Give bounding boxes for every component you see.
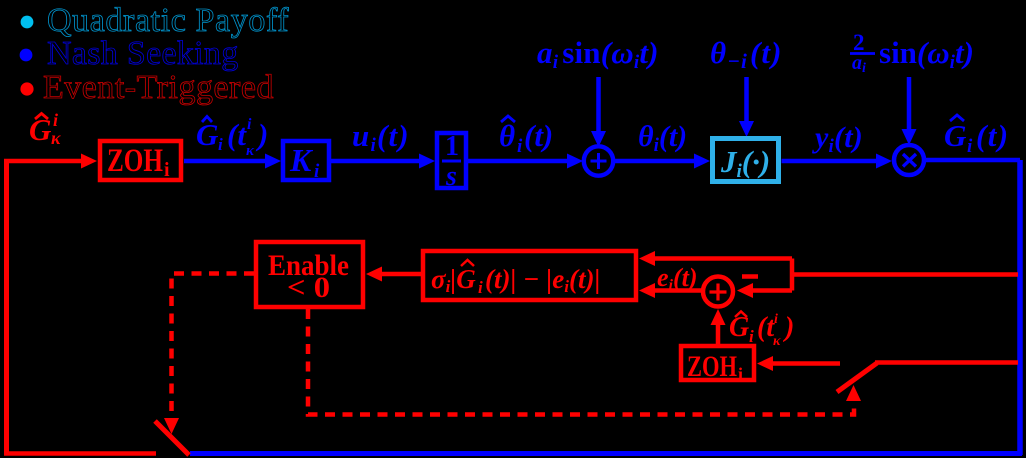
legend bullet Quadratic Payoff	[21, 16, 34, 29]
wire blue dither down into sum with arrowhead	[591, 77, 606, 147]
minus sign label	[742, 274, 758, 279]
svg-text:i: i	[247, 116, 252, 133]
svg-text:Event-Triggered: Event-Triggered	[43, 69, 274, 106]
dashed red Enable bottom control line	[308, 309, 861, 415]
wire red ZOH2 up into red sum with arrowhead	[711, 309, 726, 344]
wire red vertical junction x=792	[790, 259, 795, 291]
wire red from junction into red sum with arrowhead (minus input)	[737, 283, 792, 298]
wire blue multiplier to right edge	[924, 158, 1020, 163]
label (2/a_i)sin(w_i t) demod	[850, 30, 974, 76]
block Enable<0	[256, 242, 363, 307]
legend bullet Event-Triggered	[20, 82, 33, 95]
svg-text:Ji(·): Ji(·)	[720, 144, 770, 182]
svg-text:(t)| − |ei(t)|: (t)| − |ei(t)|	[485, 264, 600, 296]
label Ghat_i(t) output	[944, 115, 1009, 157]
svg-text:ui(t): ui(t)	[352, 118, 410, 156]
svg-text:Quadratic Payoff: Quadratic Payoff	[47, 2, 289, 39]
svg-text:i: i	[517, 136, 523, 157]
block sigma_i|Ghat_i(t)|-|e_i(t)|	[423, 251, 636, 300]
dashed red Enable left control line	[164, 274, 254, 435]
svg-text:i: i	[738, 364, 743, 384]
wire blue K_i to 1/s with arrowhead	[329, 154, 435, 169]
block J_i(.) payoff (cyan)	[713, 139, 779, 183]
block ZOH_i (lower)	[681, 346, 754, 384]
label thetahat_i(t)	[499, 116, 553, 157]
svg-text:(t): (t)	[524, 118, 553, 153]
multiplier junction (blue times circle)	[894, 145, 924, 175]
svg-text:sin(ωit): sin(ωit)	[879, 35, 974, 73]
svg-text:i: i	[53, 110, 58, 130]
wire blue bottom horizontal	[190, 451, 1022, 456]
wire blue J_i to multiplier with arrowhead	[782, 154, 893, 169]
svg-text:(t: (t	[227, 117, 247, 152]
wire blue ZOH1 to K_i with arrowhead	[184, 154, 281, 169]
svg-text:1: 1	[445, 131, 459, 162]
svg-text:ZOH: ZOH	[687, 350, 737, 383]
wire red into ZOH1 with arrowhead	[4, 154, 97, 169]
switch blade left	[155, 421, 189, 455]
svg-text:yi(t): yi(t)	[812, 121, 863, 157]
switch blade right	[837, 363, 877, 392]
wire blue demod down into multiplier with arrowhead	[902, 77, 917, 145]
label Ghat_i(t^i_kappa) top	[196, 116, 268, 159]
svg-text:ZOH: ZOH	[107, 143, 163, 179]
svg-text:i: i	[478, 278, 483, 297]
red sum junction (plus circle)	[703, 277, 733, 307]
svg-text:K: K	[289, 142, 314, 178]
wire red long line to blue right edge	[792, 272, 1018, 277]
sum junction (blue plus circle)	[584, 146, 613, 175]
wire red left vertical feedback	[4, 161, 9, 454]
svg-text:i: i	[164, 159, 170, 181]
svg-text:G: G	[29, 112, 52, 147]
svg-text:(t): (t)	[976, 118, 1009, 153]
svg-text:s: s	[445, 161, 457, 192]
svg-text:i: i	[967, 136, 973, 157]
svg-text:< 0: < 0	[287, 271, 330, 304]
svg-text:σi|G: σi|G	[431, 264, 476, 296]
block ZOH_i (top)	[100, 141, 181, 181]
wire red bottom-left horizontal	[4, 451, 156, 456]
svg-text:θi(t): θi(t)	[638, 120, 687, 156]
svg-text:Nash Seeking: Nash Seeking	[47, 35, 239, 72]
svg-text:κ: κ	[773, 334, 781, 349]
label Ghat^i_kappa	[29, 110, 61, 148]
svg-text:i: i	[749, 327, 754, 346]
svg-text:i: i	[314, 161, 320, 182]
block integrator 1/s	[437, 131, 466, 192]
svg-text:i: i	[774, 312, 778, 327]
block K_i	[283, 141, 329, 182]
svg-text:i: i	[218, 135, 223, 154]
wire red switch to blue right edge	[875, 360, 1018, 365]
wire blue 1/s to sum with arrowhead	[466, 154, 583, 169]
wire red upper entry into sigma-box with arrowhead	[639, 251, 792, 266]
wire blue sum to J_i with arrowhead	[614, 154, 710, 169]
wire blue right edge vertical	[1017, 160, 1023, 455]
legend bullet Nash Seeking	[20, 49, 33, 62]
wire blue theta_-i down into J_i with arrowhead	[739, 77, 754, 137]
svg-text:κ: κ	[246, 143, 255, 159]
svg-text:G: G	[944, 118, 967, 153]
label Ghat_i(t^i_kappa) lower	[729, 312, 794, 350]
wire red sigma-box to Enable with arrowhead	[366, 267, 421, 282]
wire red into ZOH2 from switch with arrowhead	[757, 356, 840, 371]
svg-text:κ: κ	[51, 128, 61, 148]
wire red e_i(t) from red sum into sigma-box with arrowhead	[639, 283, 703, 298]
svg-text:G: G	[196, 117, 219, 152]
svg-text:θ: θ	[499, 118, 515, 153]
